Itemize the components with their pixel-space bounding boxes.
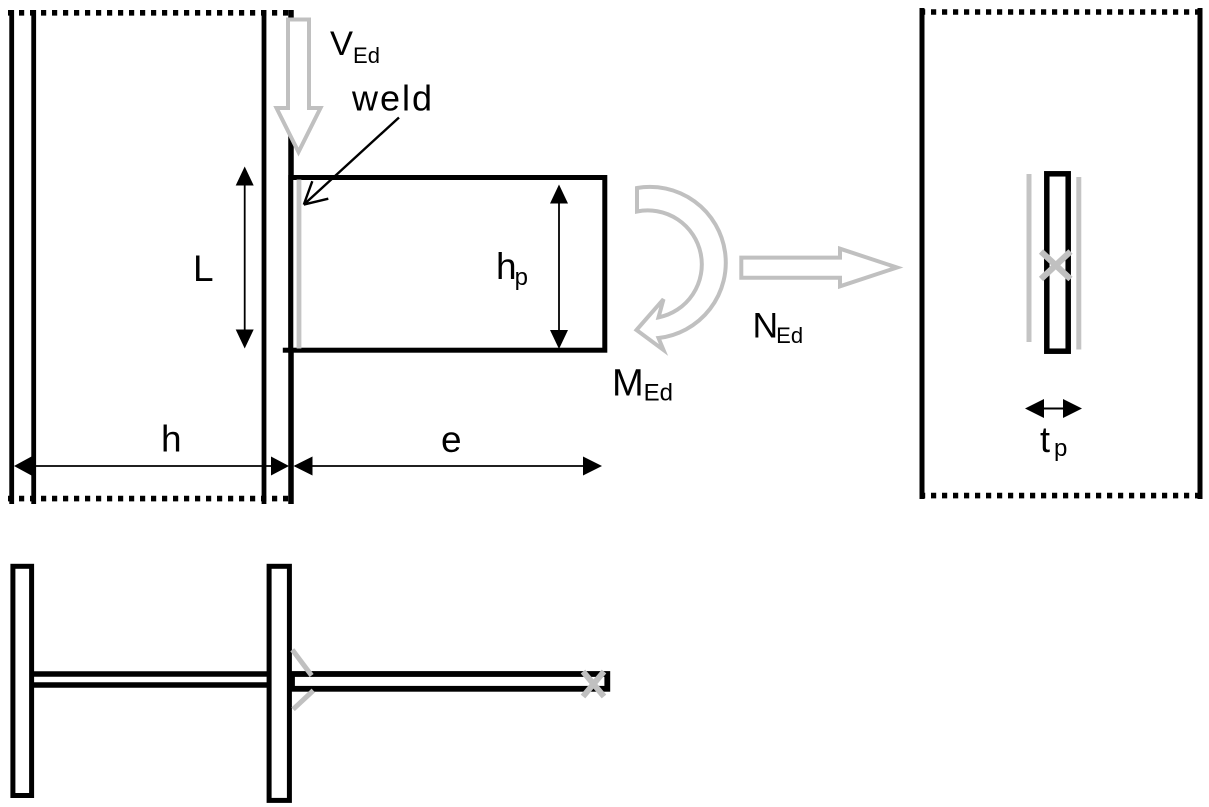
e dimension line [295,465,600,467]
L dimension line [244,170,246,345]
e dimension arrowhead right [583,457,602,476]
weld line left (gray, section) [1027,174,1032,342]
h dimension line [16,465,286,467]
svg-text:weld: weld [351,78,434,119]
weld fillet mark plan lower (gray) [293,691,313,710]
column web plan bottom line [34,682,267,688]
h dimension arrowhead right [271,457,289,476]
V_Ed force arrow (gray block arrow, down) [277,20,321,153]
N_Ed force arrow (gray block arrow, right) [741,249,897,287]
svg-text:L: L [193,248,214,289]
fin plate bottom edge overhang [283,348,292,353]
L dimension arrowhead bottom [236,330,254,349]
column cut line bottom dotted [8,496,291,502]
t_p arrowhead left [1025,399,1044,418]
column right flange inner line [262,10,267,504]
t_p dimension line [1040,408,1066,410]
column flange plan right [269,566,289,800]
h_p dimension arrowhead bottom [550,330,568,349]
svg-text:h: h [161,419,182,460]
svg-text:e: e [441,419,462,460]
column left flange inner line [31,10,36,504]
weld X marker plan [583,672,604,697]
end plate right edge line [1198,8,1203,499]
column right flange outer line [288,10,294,504]
weld leader arrow [304,118,399,205]
column web plan top line [34,671,267,677]
h_p dimension arrowhead top [550,185,568,204]
M_Ed moment arrow (gray curved arrow) [637,187,726,350]
weld fillet mark plan upper (gray) [292,650,311,676]
e dimension arrowhead left [294,457,313,476]
L dimension arrowhead top [236,167,254,186]
t_p arrowhead right [1063,399,1082,418]
column left flange outer line [9,10,14,504]
column flange plan left [13,566,32,795]
weld X marker (section) [1041,252,1071,280]
fin plate cross-section [1047,174,1068,351]
end plate cut top dotted [920,9,1203,15]
h dimension arrowhead left [14,457,32,476]
weld line (gray, elevation) [297,180,302,349]
weld line right (gray, section) [1076,177,1081,350]
column cut line top dotted [8,10,294,16]
fin plate (elevation) [291,178,605,351]
end plate cut bottom dotted [920,493,1203,499]
end plate left edge line [920,8,925,499]
fin plate plan [292,674,607,689]
h_p dimension line [558,188,560,345]
